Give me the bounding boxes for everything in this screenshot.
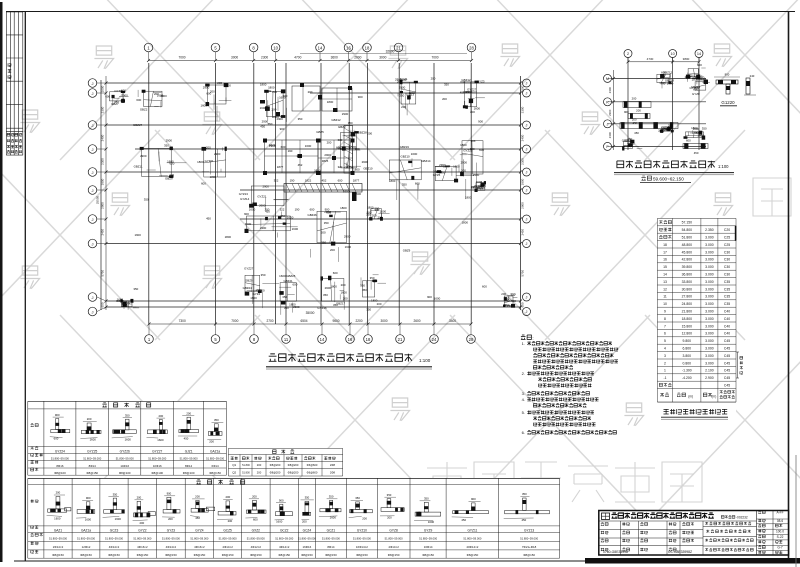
svg-text:2900: 2900 <box>262 184 269 188</box>
svg-text:1600: 1600 <box>279 274 286 278</box>
svg-text:GYZ14: GYZ14 <box>240 197 250 201</box>
svg-text:10Φ16: 10Φ16 <box>153 464 162 468</box>
svg-text:C30: C30 <box>724 250 730 254</box>
svg-text:350: 350 <box>113 492 118 496</box>
svg-text:51.800~59.000: 51.800~59.000 <box>353 536 372 540</box>
svg-text:240: 240 <box>750 74 755 78</box>
svg-text:452: 452 <box>322 179 327 183</box>
svg-text:350: 350 <box>424 497 429 501</box>
svg-text:C45: C45 <box>724 384 730 388</box>
svg-text:1800: 1800 <box>521 178 525 185</box>
svg-text:C30: C30 <box>724 273 730 277</box>
svg-text:51.800~59.000: 51.800~59.000 <box>83 456 102 460</box>
svg-text:17: 17 <box>663 250 667 254</box>
svg-text:200: 200 <box>327 141 332 145</box>
svg-text:GBZ25: GBZ25 <box>286 274 296 278</box>
floor table dark bar <box>735 226 737 241</box>
svg-text:2.100: 2.100 <box>705 369 714 373</box>
svg-text:2900: 2900 <box>324 153 331 157</box>
svg-text:3.000: 3.000 <box>705 273 714 277</box>
svg-text:4.: 4. <box>522 397 525 402</box>
svg-text:2900: 2900 <box>262 119 269 123</box>
svg-text:GBZ26: GBZ26 <box>308 213 318 217</box>
svg-text:2450: 2450 <box>521 229 525 236</box>
svg-text:25550: 25550 <box>96 195 100 204</box>
svg-text:J: J <box>526 218 528 222</box>
svg-text:J: J <box>607 122 609 126</box>
svg-text:GYZ8: GYZ8 <box>389 529 398 533</box>
svg-text:Φ8@150: Φ8@150 <box>80 553 92 557</box>
svg-text:350: 350 <box>370 276 375 280</box>
svg-text:2300: 2300 <box>521 158 525 165</box>
svg-text:1600: 1600 <box>434 296 441 300</box>
lower table cell GYZ10 <box>350 510 373 513</box>
svg-text:2900: 2900 <box>461 160 468 164</box>
svg-text:2300: 2300 <box>608 109 612 116</box>
svg-text:1800: 1800 <box>260 83 267 87</box>
svg-text:10: 10 <box>273 45 278 50</box>
frame right border <box>788 12 790 562</box>
svg-text:GCZ1: GCZ1 <box>327 529 336 533</box>
svg-text:2: 2 <box>627 52 629 56</box>
svg-text:7000: 7000 <box>178 56 185 60</box>
svg-text:GBZ10: GBZ10 <box>401 155 411 159</box>
svg-text:1600: 1600 <box>134 233 141 237</box>
svg-text:200: 200 <box>271 108 276 112</box>
svg-text:1877: 1877 <box>353 179 360 183</box>
svg-text:900: 900 <box>325 208 330 212</box>
lower table title <box>196 480 244 484</box>
svg-text:200: 200 <box>397 79 402 83</box>
svg-text:6.800: 6.800 <box>683 347 692 351</box>
svg-text:57.150: 57.150 <box>682 221 692 225</box>
title block inner verticals <box>620 521 622 555</box>
svg-text:600: 600 <box>101 302 105 307</box>
svg-text:4Φ14×2: 4Φ14×2 <box>166 545 177 549</box>
svg-text:1600: 1600 <box>279 96 286 100</box>
svg-text:200: 200 <box>56 491 61 495</box>
svg-text:K: K <box>606 100 609 104</box>
svg-text:900: 900 <box>279 498 284 502</box>
extra detail bars <box>746 78 750 94</box>
svg-text:350: 350 <box>348 121 353 125</box>
svg-text:2900: 2900 <box>473 173 480 177</box>
main plan right dimension + axis circles <box>519 82 522 85</box>
svg-text:1800: 1800 <box>160 94 167 98</box>
lower shear-wall column table <box>28 478 560 558</box>
svg-text:GBZ11: GBZ11 <box>134 165 143 169</box>
svg-text:900: 900 <box>55 413 60 417</box>
lower table cell GCZ5 <box>218 512 236 516</box>
svg-text:30.800: 30.800 <box>682 287 692 291</box>
svg-text:200: 200 <box>209 439 214 443</box>
svg-text:GYZ27: GYZ27 <box>244 267 254 271</box>
svg-text:11: 11 <box>663 295 667 299</box>
svg-text:7: 7 <box>664 324 666 328</box>
svg-text:J: J <box>92 241 94 246</box>
svg-text:1800: 1800 <box>250 296 257 300</box>
svg-text:200: 200 <box>265 208 270 212</box>
svg-text:2300: 2300 <box>261 56 268 60</box>
svg-text:2900: 2900 <box>436 170 443 174</box>
svg-text:J: J <box>92 188 94 193</box>
main plan top dimension line <box>149 60 472 62</box>
svg-text:C45: C45 <box>724 339 730 343</box>
svg-text:900: 900 <box>358 95 363 99</box>
svg-text:8Φ16: 8Φ16 <box>56 464 64 468</box>
svg-text:4730: 4730 <box>647 57 654 61</box>
svg-text:9: 9 <box>664 310 666 314</box>
svg-text:1600: 1600 <box>167 159 174 163</box>
svg-text:322: 322 <box>338 165 343 169</box>
svg-text:Φ8@100: Φ8@100 <box>54 471 66 475</box>
svg-text:452: 452 <box>298 163 303 167</box>
svg-text:Φ6@600: Φ6@600 <box>307 471 318 475</box>
svg-text:450: 450 <box>206 217 211 221</box>
svg-text:350: 350 <box>305 496 310 500</box>
svg-text:1600: 1600 <box>345 245 352 249</box>
svg-text:200: 200 <box>445 164 450 168</box>
svg-text:1600: 1600 <box>340 290 347 294</box>
svg-text:200: 200 <box>442 97 447 101</box>
svg-text:1600: 1600 <box>380 209 387 213</box>
svg-text:3400: 3400 <box>449 319 456 323</box>
main plan horizontal grid lines <box>106 82 521 84</box>
svg-text:Φ8@150: Φ8@150 <box>209 471 221 475</box>
floor table header row (bottom) <box>660 393 669 397</box>
notes block <box>521 335 532 339</box>
svg-text:2700: 2700 <box>266 319 273 323</box>
svg-text:3: 3 <box>664 354 666 358</box>
lower table cell GCZ4 <box>303 512 311 515</box>
svg-text:200: 200 <box>431 76 436 80</box>
svg-text:7Φ21+Φ18: 7Φ21+Φ18 <box>522 545 537 549</box>
svg-text:7300: 7300 <box>179 319 186 323</box>
svg-text:GBZ10: GBZ10 <box>363 166 373 170</box>
svg-text:4: 4 <box>664 347 666 351</box>
svg-text:-4.200: -4.200 <box>682 376 692 380</box>
svg-text:51.800~59.000: 51.800~59.000 <box>275 536 294 540</box>
column cluster (216,96) <box>207 85 226 104</box>
svg-text:1600: 1600 <box>224 84 231 88</box>
svg-text:GYZ3: GYZ3 <box>167 529 176 533</box>
svg-text:51.800: 51.800 <box>242 464 250 467</box>
svg-text:S-22: S-22 <box>777 535 784 539</box>
lower table cell GYZ11 <box>453 511 489 514</box>
svg-text:15: 15 <box>663 265 667 269</box>
svg-text:16: 16 <box>346 45 351 50</box>
svg-text:Φ8@150: Φ8@150 <box>467 553 479 557</box>
svg-text:2900: 2900 <box>344 234 351 238</box>
svg-text:3.000: 3.000 <box>705 236 714 240</box>
svg-text:GBZ2: GBZ2 <box>140 107 148 111</box>
svg-text:350: 350 <box>366 307 371 311</box>
svg-text:51.800~59.000: 51.800~59.000 <box>133 536 152 540</box>
svg-text:8Φ14: 8Φ14 <box>89 464 97 468</box>
svg-text:1800: 1800 <box>340 206 347 210</box>
svg-text:1800: 1800 <box>659 81 666 85</box>
wall body table title <box>273 450 295 454</box>
svg-text:GYZ13: GYZ13 <box>405 93 415 97</box>
svg-text:5750: 5750 <box>101 270 105 277</box>
svg-text:350: 350 <box>133 287 138 291</box>
svg-text:600: 600 <box>105 94 110 98</box>
svg-text:600: 600 <box>415 181 420 185</box>
main plan right boundary line <box>520 76 522 310</box>
svg-text:3.000: 3.000 <box>705 280 714 284</box>
svg-text:51.800~59.000: 51.800~59.000 <box>180 456 199 460</box>
svg-text:1600: 1600 <box>697 134 704 138</box>
svg-text:322: 322 <box>280 208 285 212</box>
scan bottom-right black bar <box>585 558 800 564</box>
svg-text:GBZ26: GBZ26 <box>476 186 486 190</box>
column cluster (265,197) <box>251 186 284 206</box>
svg-text:J: J <box>526 310 528 314</box>
svg-text:1000: 1000 <box>101 85 105 92</box>
svg-text:1600: 1600 <box>125 438 132 442</box>
svg-text:200: 200 <box>461 168 466 172</box>
svg-text:1800: 1800 <box>121 304 128 308</box>
svg-text:GBZ9: GBZ9 <box>403 248 411 252</box>
svg-text:3.000: 3.000 <box>705 339 714 343</box>
svg-text:1822: 1822 <box>305 179 312 183</box>
svg-text:200: 200 <box>401 105 406 109</box>
svg-text:3.000: 3.000 <box>705 243 714 247</box>
svg-text:3.: 3. <box>522 391 525 396</box>
frame left border <box>24 12 26 562</box>
svg-text:200: 200 <box>272 90 277 94</box>
svg-text:Φ8@150: Φ8@150 <box>165 553 177 557</box>
svg-text:GCZ3: GCZ3 <box>110 529 119 533</box>
svg-text:600: 600 <box>356 192 361 196</box>
svg-text:24.800: 24.800 <box>682 302 692 306</box>
svg-text:3.000: 3.000 <box>705 295 714 299</box>
svg-text:3.000: 3.000 <box>705 265 714 269</box>
svg-text:GYZ11: GYZ11 <box>205 159 214 163</box>
svg-text:Φ8@150: Φ8@150 <box>388 553 400 557</box>
svg-text:08.6: 08.6 <box>777 519 783 523</box>
svg-text:2900: 2900 <box>121 94 128 98</box>
svg-text:GYZ3: GYZ3 <box>477 80 485 84</box>
title block company name <box>612 513 714 519</box>
svg-text:200: 200 <box>87 417 92 421</box>
svg-text:C45: C45 <box>724 369 730 373</box>
title block outer frame <box>599 511 789 556</box>
svg-text:1600: 1600 <box>330 516 337 520</box>
svg-text:2900: 2900 <box>101 202 105 209</box>
main plan bottom axis circles <box>148 324 150 335</box>
svg-text:3.000: 3.000 <box>705 347 714 351</box>
svg-text:C40: C40 <box>724 310 730 314</box>
small plan left axis circles <box>608 77 613 79</box>
svg-text:1600: 1600 <box>292 227 299 231</box>
svg-text:Φ8@200: Φ8@200 <box>270 471 281 475</box>
svg-text:54.800: 54.800 <box>682 228 692 232</box>
svg-text:GBZ5: GBZ5 <box>316 130 324 134</box>
column cluster (214,163) <box>204 149 226 177</box>
svg-text:1600: 1600 <box>90 438 97 442</box>
lower table cell GXZ2 <box>246 510 266 513</box>
svg-text:C45: C45 <box>724 354 730 358</box>
svg-text:GBZ14: GBZ14 <box>421 159 431 163</box>
svg-text:3000: 3000 <box>379 56 386 60</box>
svg-text:3800: 3800 <box>683 57 690 61</box>
svg-text:3.000: 3.000 <box>705 332 714 336</box>
svg-text:1600: 1600 <box>345 147 352 151</box>
svg-text:16: 16 <box>348 337 353 342</box>
svg-text:G-7: G-7 <box>777 546 783 550</box>
svg-text:9600: 9600 <box>332 319 339 323</box>
svg-text:51.800~59.000: 51.800~59.000 <box>419 536 438 540</box>
svg-text:350: 350 <box>144 198 149 202</box>
svg-text:550: 550 <box>268 122 273 126</box>
svg-text:200: 200 <box>257 471 262 475</box>
small marks bottom-right of plan <box>504 296 513 306</box>
svg-text:4Φ14×2: 4Φ14×2 <box>109 545 120 549</box>
svg-text:51.800~59.000: 51.800~59.000 <box>116 456 135 460</box>
svg-text:200: 200 <box>377 302 382 306</box>
svg-text:Φ8@150: Φ8@150 <box>325 553 337 557</box>
svg-text:Φ8@150: Φ8@150 <box>278 553 290 557</box>
svg-text:GYZ21: GYZ21 <box>257 194 267 198</box>
svg-text:48.800: 48.800 <box>682 243 692 247</box>
svg-text:GYZ26: GYZ26 <box>120 450 130 454</box>
svg-text:GYZ8: GYZ8 <box>692 92 700 96</box>
svg-text:2900: 2900 <box>521 202 525 209</box>
upper table cell GYZ26 <box>113 430 137 434</box>
main plan bottom dimension line <box>149 323 471 325</box>
svg-text:GCZ4: GCZ4 <box>303 529 312 533</box>
main plan title <box>269 354 413 362</box>
svg-text:Φ8@100: Φ8@100 <box>119 471 131 475</box>
svg-text:C35: C35 <box>724 280 730 284</box>
upper table title <box>102 403 150 407</box>
svg-text:59.600~62.150: 59.600~62.150 <box>653 176 684 181</box>
svg-text:51.800~59.000: 51.800~59.000 <box>148 456 167 460</box>
svg-text:200: 200 <box>206 146 211 150</box>
svg-text:Φ8@200: Φ8@200 <box>288 463 299 467</box>
svg-text:14: 14 <box>320 337 325 342</box>
svg-text:900: 900 <box>280 127 285 131</box>
svg-text:9.800: 9.800 <box>683 339 692 343</box>
svg-text:12Φ12: 12Φ12 <box>82 545 91 549</box>
svg-text:200: 200 <box>343 297 348 301</box>
svg-text:3000: 3000 <box>231 56 238 60</box>
svg-text:1600: 1600 <box>428 520 435 524</box>
svg-text:GAZ1a: GAZ1a <box>81 529 91 533</box>
svg-text:3.000: 3.000 <box>705 310 714 314</box>
svg-text:10: 10 <box>670 52 674 56</box>
svg-text:200: 200 <box>501 292 506 296</box>
svg-text:0.800: 0.800 <box>683 361 692 365</box>
svg-text:GJZ1: GJZ1 <box>185 450 193 454</box>
svg-text:8Φ14: 8Φ14 <box>185 464 193 468</box>
svg-text:200: 200 <box>158 414 163 418</box>
svg-text:350: 350 <box>504 303 509 307</box>
lower table cell GYZ4 <box>191 509 208 513</box>
title block left rows <box>599 529 703 531</box>
svg-text:Φ8@150: Φ8@150 <box>86 471 98 475</box>
svg-text:200: 200 <box>636 109 641 113</box>
svg-text:1800: 1800 <box>330 285 337 289</box>
column cluster (335,289) <box>322 279 344 302</box>
svg-text:1600: 1600 <box>157 438 164 442</box>
small plan title <box>617 161 715 168</box>
svg-text:13: 13 <box>663 280 667 284</box>
svg-text:2300: 2300 <box>101 158 105 165</box>
svg-text:6: 6 <box>664 332 666 336</box>
svg-text:51.800~59.000: 51.800~59.000 <box>298 536 317 540</box>
svg-text:3.800: 3.800 <box>683 354 692 358</box>
svg-text:1800: 1800 <box>465 196 472 200</box>
svg-text:200: 200 <box>387 515 392 519</box>
svg-text:200: 200 <box>341 283 346 287</box>
svg-text:2Φ8: 2Φ8 <box>330 471 336 475</box>
svg-text:1600: 1600 <box>474 106 481 110</box>
svg-text:J: J <box>92 123 94 128</box>
svg-text:18: 18 <box>365 45 370 50</box>
lower table cell GYZ2 <box>134 513 150 517</box>
svg-text:2900: 2900 <box>399 86 406 90</box>
title block right column cells <box>757 518 789 520</box>
small plan column clusters <box>657 74 670 82</box>
svg-text:51.800~59.000: 51.800~59.000 <box>206 456 225 460</box>
svg-text:4Φ16×2: 4Φ16×2 <box>137 545 148 549</box>
svg-text:16: 16 <box>663 258 667 262</box>
svg-text:32600: 32600 <box>386 50 395 54</box>
svg-text:600: 600 <box>281 145 286 149</box>
svg-text:GBZ7: GBZ7 <box>111 102 119 106</box>
small plan top dimension <box>628 61 699 63</box>
svg-text:200: 200 <box>321 231 326 235</box>
upper shear-wall column table <box>28 401 227 475</box>
left signature table <box>6 11 23 13</box>
svg-text:Φ8@150: Φ8@150 <box>422 553 434 557</box>
svg-text:1.: 1. <box>522 341 525 346</box>
watermark diagonal crosses <box>60 0 260 160</box>
svg-text:39.800: 39.800 <box>682 265 692 269</box>
svg-text:C35: C35 <box>724 287 730 291</box>
svg-text:3.000: 3.000 <box>705 302 714 306</box>
svg-text:GYZ9: GYZ9 <box>424 529 433 533</box>
svg-text:J: J <box>92 91 94 96</box>
svg-text:2900: 2900 <box>342 112 349 116</box>
svg-text:1600: 1600 <box>115 517 122 521</box>
svg-text:C40: C40 <box>724 317 730 321</box>
svg-text:2900: 2900 <box>214 152 221 156</box>
svg-text:28: 28 <box>469 337 474 342</box>
svg-text:350: 350 <box>444 83 449 87</box>
svg-text:200: 200 <box>195 495 200 499</box>
svg-text:2300: 2300 <box>608 132 612 139</box>
svg-text:M: M <box>606 77 609 81</box>
svg-text:4Φ14×2: 4Φ14×2 <box>222 545 233 549</box>
svg-text:200: 200 <box>169 173 174 177</box>
svg-text:6Φ14: 6Φ14 <box>212 464 220 468</box>
svg-text:2900: 2900 <box>269 144 276 148</box>
svg-text:16Φ14×2: 16Φ14×2 <box>356 545 368 549</box>
svg-text:350: 350 <box>387 493 392 497</box>
svg-text:200: 200 <box>168 517 173 521</box>
svg-text:Φ6@600: Φ6@600 <box>307 463 318 467</box>
svg-text:1877: 1877 <box>277 165 284 169</box>
svg-text:450: 450 <box>460 91 465 95</box>
svg-text:C35: C35 <box>724 295 730 299</box>
svg-text:11: 11 <box>284 337 289 342</box>
svg-text:2: 2 <box>664 361 666 365</box>
svg-text:51.800~59.000: 51.800~59.000 <box>247 536 266 540</box>
svg-text:200: 200 <box>470 110 475 114</box>
